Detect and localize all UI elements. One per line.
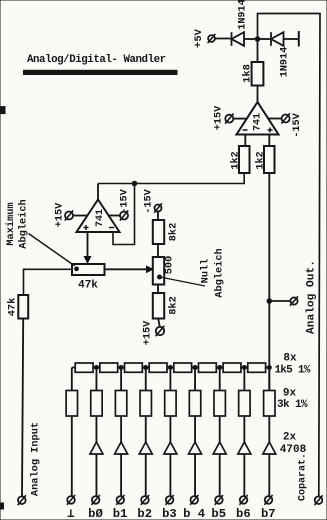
svg-text:Coparat.: Coparat.: [298, 453, 309, 501]
svg-text:b2: b2: [137, 507, 152, 520]
svg-text:bØ: bØ: [88, 507, 103, 520]
svg-text:-15V: -15V: [292, 112, 303, 137]
svg-text:-15V: -15V: [120, 188, 131, 213]
svg-text:1k5 1%: 1k5 1%: [274, 364, 310, 376]
svg-text:Maximum: Maximum: [5, 202, 17, 245]
svg-text:1N914: 1N914: [280, 47, 291, 78]
svg-text:b1: b1: [113, 507, 128, 520]
svg-text:Analog Input: Analog Input: [30, 422, 42, 496]
svg-text:+15V: +15V: [55, 202, 66, 227]
svg-text:b 4: b 4: [183, 507, 205, 520]
svg-text:+15V: +15V: [143, 320, 154, 345]
svg-text:b5: b5: [211, 507, 226, 520]
svg-text:47k: 47k: [7, 298, 19, 317]
svg-text:Abgleich: Abgleich: [18, 199, 30, 248]
svg-text:-15V: -15V: [144, 188, 155, 213]
svg-text:1k2: 1k2: [230, 151, 242, 169]
svg-text:Abgleich: Abgleich: [214, 248, 226, 297]
svg-text:3k 1%: 3k 1%: [277, 399, 308, 411]
svg-text:b7: b7: [261, 507, 276, 520]
svg-text:8k2: 8k2: [168, 223, 180, 242]
svg-text:8k2: 8k2: [168, 296, 180, 315]
svg-text:741: 741: [253, 113, 264, 131]
svg-text:+5V: +5V: [193, 28, 205, 48]
svg-text:Null: Null: [200, 259, 212, 284]
svg-text:Analog/Digital- Wandler: Analog/Digital- Wandler: [27, 54, 166, 66]
svg-text:b3: b3: [162, 507, 177, 520]
svg-text:+15V: +15V: [214, 105, 225, 130]
svg-text:8x: 8x: [283, 353, 297, 365]
svg-text:b6: b6: [236, 507, 251, 520]
svg-text:⊥: ⊥: [67, 507, 74, 520]
svg-text:Analog Out.: Analog Out.: [306, 260, 318, 334]
svg-text:1k2: 1k2: [255, 151, 267, 169]
svg-text:9x: 9x: [283, 388, 297, 400]
svg-text:741: 741: [95, 209, 106, 227]
svg-text:2x: 2x: [283, 431, 297, 443]
svg-text:1k8: 1k8: [242, 64, 254, 83]
svg-text:47k: 47k: [78, 280, 98, 292]
svg-text:500: 500: [164, 256, 176, 275]
svg-text:1N914: 1N914: [238, 0, 249, 30]
